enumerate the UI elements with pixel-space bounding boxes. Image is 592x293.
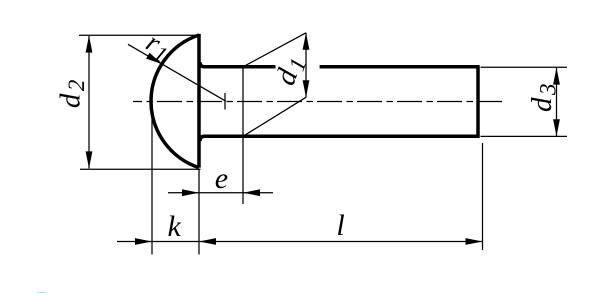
- rivet head dome arc: [151, 35, 199, 168]
- d1 oblique extension line top: [243, 33, 306, 67]
- d2 dimension line: [88, 36, 90, 168]
- extension line at l right (shank end): [482, 143, 484, 250]
- d3 arrow up: [553, 68, 560, 85]
- d2 bottom extension line: [80, 168, 201, 170]
- extension line at e right / d1 origin: [242, 67, 244, 204]
- d1 arrow down: [303, 80, 310, 97]
- scan smudge bottom-left: [28, 292, 56, 293]
- svg-text:e: e: [215, 162, 228, 195]
- centerline (axis): [133, 101, 502, 103]
- r1 radius leader line: [128, 44, 226, 101]
- d2 arrow down: [86, 151, 93, 168]
- sphere center tick: [224, 93, 226, 110]
- svg-text:l: l: [336, 209, 344, 242]
- shank top edge right segment: [320, 65, 479, 69]
- d1 arrow up: [303, 33, 310, 50]
- d3 arrow down: [553, 119, 560, 136]
- d1 dimension line: [305, 33, 307, 98]
- extension line below head face: [198, 170, 200, 255]
- k and l dimension line: [117, 241, 483, 243]
- shank top edge left segment with under-head fillet: [200, 62, 276, 67]
- rivet head face line: [197, 34, 201, 168]
- svg-text:k: k: [168, 210, 182, 243]
- d1 oblique extension line bottom: [243, 97, 306, 136]
- d3 dimension line: [556, 68, 558, 137]
- r1 arrow: [146, 53, 162, 64]
- d3 bottom extension line: [481, 135, 568, 137]
- shank end face line: [476, 65, 480, 138]
- l arrow right: [466, 238, 483, 245]
- extension line at k left (head crown): [151, 104, 153, 255]
- e arrow right outside: [243, 189, 260, 196]
- l arrow left: [199, 238, 216, 245]
- shank bottom edge with under-head fillet: [200, 136, 479, 141]
- d2 arrow up: [86, 36, 93, 53]
- e arrow left outside: [182, 189, 199, 196]
- e dimension line: [168, 192, 273, 194]
- k arrow left outside: [135, 238, 152, 245]
- d2 top extension line: [79, 34, 197, 36]
- d3 top extension line: [481, 66, 568, 68]
